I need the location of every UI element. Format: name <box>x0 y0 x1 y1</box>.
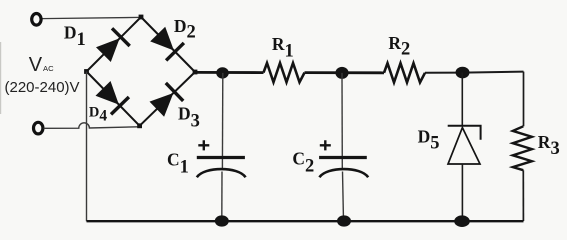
capacitor C1 top plate <box>197 156 245 159</box>
bridge edge wire T-R <box>141 17 195 72</box>
wire D5 branch bottom <box>461 164 463 221</box>
capacitor C2 plus sign <box>320 140 331 150</box>
wire C1 branch bottom <box>221 172 223 222</box>
wire bridge right corner to R1 <box>195 71 264 74</box>
wire C2 branch bottom <box>343 172 344 222</box>
resistor R3 zigzag <box>513 126 532 170</box>
wire R1 to R2 <box>305 71 385 74</box>
diode D4 (left corner to bottom corner) <box>96 81 119 105</box>
wire R3 down to bottom rail <box>522 170 524 221</box>
node square at bridge top corner <box>139 15 144 20</box>
scan edge artifact left <box>0 42 1 114</box>
resistor R1 zigzag <box>264 63 305 82</box>
junction dot at R1 input node <box>216 67 229 78</box>
diode D3 (bottom corner to right corner) <box>150 93 174 117</box>
bridge edge wire L-B <box>87 72 140 126</box>
wire bottom terminal to bridge bottom (with crossover hump) <box>44 123 139 129</box>
junction dot bottom C1 node <box>215 215 229 226</box>
diode D2 (top corner to right corner) <box>150 27 174 51</box>
node square at bridge bottom corner <box>137 123 142 128</box>
capacitor C1 curved bottom plate <box>197 169 246 177</box>
node square at bridge left corner <box>84 69 89 74</box>
wire R2 to top-right corner <box>425 72 524 73</box>
diode D1 (left corner to top corner) <box>96 38 120 62</box>
junction dot bottom D5 node <box>454 215 470 227</box>
resistor R2 zigzag <box>384 63 425 82</box>
terminal top input <box>32 13 41 25</box>
node square at bridge right corner <box>193 70 198 75</box>
capacitor C1 plus sign <box>198 140 209 150</box>
capacitor C2 curved bottom plate <box>319 169 368 177</box>
junction dot at R1/R2 node <box>335 67 348 79</box>
wire bridge left corner down to bottom rail <box>86 72 88 222</box>
bottom rail wire <box>87 220 524 222</box>
bridge edge wire B-R <box>140 72 195 126</box>
bridge edge wire L-T <box>87 17 142 72</box>
terminal bottom input <box>34 122 43 134</box>
wire right branch down to R3 <box>523 72 525 127</box>
wire top terminal to bridge top <box>42 17 141 18</box>
capacitor C2 top plate <box>319 156 367 159</box>
wire D5 branch top <box>461 73 463 126</box>
wire C1 branch top <box>221 73 223 170</box>
junction dot at R2 output node <box>456 67 470 79</box>
zener diode D5 triangle <box>448 128 480 164</box>
svg-text:(220-240)V: (220-240)V <box>5 79 80 96</box>
junction dot bottom C2 node <box>337 215 351 226</box>
wire C2 branch top <box>341 73 343 170</box>
zener diode D5 cathode bar with bent tail <box>448 126 481 140</box>
